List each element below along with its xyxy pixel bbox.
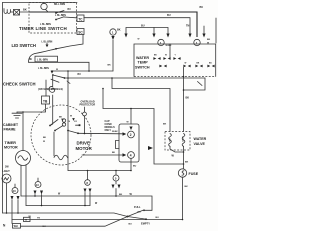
- svg-text:BK: BK: [112, 152, 116, 154]
- motor top labels: [59, 116, 78, 124]
- connector 2b pins: [188, 34, 205, 38]
- node: [130, 170, 132, 172]
- timer line switch contacts: [55, 11, 76, 21]
- svg-text:TC: TC: [78, 17, 83, 21]
- tick: [198, 82, 203, 86]
- node: [183, 76, 185, 78]
- motor winding coils: [62, 119, 65, 122]
- svg-text:BK: BK: [185, 162, 189, 164]
- svg-text:BU: BU: [138, 212, 142, 214]
- svg-text:FUSE: FUSE: [189, 172, 199, 176]
- node: [17, 212, 19, 214]
- wire BU upper branch: [126, 28, 168, 34]
- svg-text:TN: TN: [37, 217, 40, 219]
- wire motor to connector 2: [78, 132, 123, 135]
- ground cabinet frame: [12, 112, 22, 118]
- wire cap branch: [103, 89, 184, 165]
- wire motor to connector 4: [82, 154, 123, 156]
- svg-text:CHECK SWITCH: CHECK SWITCH: [3, 81, 36, 86]
- main winding: [54, 155, 68, 160]
- wire motor start branch: [67, 71, 69, 171]
- wire check switch common bus: [65, 77, 206, 79]
- svg-text:COLD: COLD: [183, 136, 185, 142]
- wire temp switch to valve right: [183, 67, 185, 131]
- valve solenoid cold: [182, 134, 185, 147]
- lid switch S1: [35, 43, 57, 54]
- svg-text:WATER: WATER: [194, 137, 207, 141]
- svg-text:TIMER LINE SWITCH: TIMER LINE SWITCH: [19, 26, 67, 31]
- valve solenoid hot: [169, 134, 172, 147]
- terminal TC: [77, 15, 84, 22]
- wire motor bottom bus: [68, 170, 131, 172]
- svg-text:MOTOR: MOTOR: [76, 146, 93, 151]
- wire check left leg with relay coil: [49, 75, 55, 124]
- timer line switch enclosure (dashed): [29, 3, 77, 34]
- svg-text:L BL-BRN: L BL-BRN: [42, 41, 53, 43]
- label box L BL-BRN: [35, 56, 58, 62]
- node: [22, 111, 24, 113]
- svg-text:BU: BU: [78, 74, 82, 76]
- pin triangle top: [129, 127, 132, 131]
- temp switch terminal pair r2c: [195, 65, 202, 68]
- svg-text:PROTECTOR: PROTECTOR: [80, 104, 96, 107]
- motor switch contact: [67, 130, 79, 135]
- wire TB to ground: [17, 104, 46, 112]
- terminal SC: [77, 29, 84, 35]
- node: [102, 88, 104, 90]
- fuse F1: [178, 169, 186, 177]
- wire to valve left: [112, 78, 170, 132]
- bus bottom 1: [21, 196, 152, 210]
- wire TB branch: [45, 80, 47, 96]
- neutral box: [13, 224, 21, 229]
- node: [111, 77, 113, 79]
- connector 10: [11, 184, 20, 224]
- svg-text:BK: BK: [43, 137, 47, 139]
- power cord plug P1: [4, 9, 14, 14]
- svg-text:BK: BK: [108, 64, 112, 66]
- svg-text:LIGHT: LIGHT: [3, 170, 11, 173]
- svg-text:2: 2: [130, 133, 132, 137]
- svg-text:TEMP: TEMP: [138, 61, 149, 65]
- connector 1b pins: [152, 34, 169, 38]
- wire BK plug to line bus: [20, 11, 30, 13]
- node: [183, 163, 185, 165]
- wire fuse to bottom: [182, 177, 184, 219]
- wire stub: [153, 28, 155, 34]
- svg-text:BU: BU: [68, 9, 72, 11]
- svg-text:FULL: FULL: [134, 205, 141, 209]
- connector 2: [128, 131, 135, 138]
- svg-text:BU: BU: [129, 223, 133, 225]
- tick: [67, 81, 70, 84]
- light L1: [2, 174, 11, 183]
- wire light leads: [1, 178, 4, 180]
- temp switch terminal pair r1b: [163, 57, 170, 60]
- node: [115, 195, 117, 197]
- wire stub: [203, 26, 205, 34]
- wire valve to fuse: [183, 152, 185, 169]
- temp switch terminal pair r2a: [159, 65, 166, 68]
- svg-text:W-BK: W-BK: [112, 131, 118, 133]
- connector 5: [112, 171, 121, 197]
- pin triangle: [111, 36, 114, 40]
- svg-text:BK: BK: [186, 97, 190, 100]
- node: [51, 70, 53, 72]
- jumper loop: [116, 141, 120, 149]
- check switch S2: [38, 68, 65, 82]
- drive motor enclosure (dashed circle): [31, 105, 91, 165]
- wire timer motor leads: [20, 165, 22, 196]
- svg-text:EMPTY: EMPTY: [141, 221, 150, 225]
- svg-text:(ON SOME MODELS): (ON SOME MODELS): [38, 88, 63, 91]
- svg-text:W: W: [165, 55, 167, 57]
- node: [6, 212, 8, 214]
- wire L1 line bus top: [29, 12, 197, 37]
- connector 1b circle: [158, 39, 164, 45]
- wire timer motor top: [22, 112, 24, 151]
- svg-text:BK: BK: [185, 186, 189, 188]
- node: [41, 205, 43, 207]
- wire TC bus: [84, 18, 190, 34]
- node: [182, 219, 184, 221]
- svg-text:WATER: WATER: [136, 56, 149, 60]
- wire right edge: [215, 18, 217, 43]
- svg-text:SWITCH: SWITCH: [135, 65, 150, 69]
- svg-text:BU: BU: [167, 14, 171, 17]
- pin triangles left: [123, 132, 127, 135]
- svg-text:L BL-BRN: L BL-BRN: [38, 68, 49, 70]
- svg-text:BU: BU: [133, 166, 137, 168]
- svg-text:BU: BU: [29, 59, 33, 61]
- svg-text:WH: WH: [14, 225, 18, 228]
- svg-text:W: W: [185, 62, 187, 64]
- svg-text:L BL-BRN: L BL-BRN: [37, 60, 48, 62]
- wire into switch: [169, 44, 171, 57]
- svg-text:BK: BK: [23, 8, 27, 12]
- wire BU row to TD connector: [52, 70, 113, 72]
- noise filter box: [14, 10, 20, 16]
- water level switch: [127, 209, 153, 220]
- node: [84, 205, 86, 207]
- svg-text:L BL-BRN: L BL-BRN: [55, 15, 66, 17]
- svg-text:ONLY: ONLY: [105, 129, 112, 132]
- timer cam M: [41, 3, 48, 12]
- svg-text:LID SWITCH: LID SWITCH: [12, 43, 36, 48]
- water temp switch box: [134, 44, 216, 77]
- svg-text:W: W: [43, 141, 45, 143]
- wire SC to lid switch: [56, 35, 83, 49]
- svg-text:BK: BK: [163, 124, 167, 126]
- svg-text:BK: BK: [207, 39, 211, 41]
- svg-text:W: W: [56, 69, 58, 71]
- node: [34, 195, 36, 197]
- node: [183, 89, 185, 91]
- harness connector block: [119, 124, 139, 162]
- water temp switch box bottom (dashed): [134, 76, 216, 78]
- svg-text:W: W: [138, 39, 140, 41]
- border frame top: [3, 2, 78, 4]
- svg-text:4: 4: [130, 153, 132, 157]
- overload protector OL: [83, 107, 87, 134]
- svg-text:BK-L BRN: BK-L BRN: [54, 4, 65, 6]
- arrow: [148, 146, 153, 150]
- temp switch terminal pair r1a: [153, 57, 160, 60]
- svg-text:BU: BU: [200, 6, 204, 9]
- temp switch terminal pair r1c: [173, 57, 180, 60]
- temp switch terminal pair r2d: [207, 65, 214, 68]
- wire branch to connector 2: [130, 109, 132, 125]
- wire neutral: [21, 217, 128, 227]
- svg-text:BK: BK: [117, 28, 121, 31]
- wire connector 4 down: [130, 158, 132, 170]
- svg-text:VALVE: VALVE: [194, 142, 206, 146]
- motor internal contacts: [49, 120, 63, 157]
- pin triangle: [124, 34, 127, 38]
- node: [87, 170, 89, 172]
- node: [183, 151, 185, 153]
- svg-text:BU: BU: [141, 24, 145, 27]
- svg-text:CABINET: CABINET: [3, 123, 19, 127]
- svg-text:BU: BU: [156, 217, 160, 219]
- wire check bus jog: [184, 78, 206, 90]
- connector 13: [34, 178, 44, 206]
- svg-text:W: W: [70, 116, 72, 118]
- border frame left: [2, 3, 4, 214]
- pin square: [76, 124, 81, 126]
- node: [130, 108, 132, 110]
- svg-text:W-BK: W-BK: [166, 45, 172, 47]
- connector 8: [84, 171, 92, 206]
- wire lid switch left leg: [29, 54, 36, 63]
- node: [115, 170, 117, 172]
- wire lid row to drive area: [29, 62, 90, 71]
- svg-text:TIMER: TIMER: [5, 141, 17, 145]
- bus bottom 3: [3, 213, 128, 217]
- water valve box (dashed): [165, 132, 190, 151]
- svg-text:DRIVE: DRIVE: [77, 141, 90, 146]
- svg-text:MOTOR: MOTOR: [4, 146, 18, 150]
- node: [67, 77, 69, 79]
- wire valve common: [170, 146, 184, 152]
- timer motor TM: [16, 151, 31, 166]
- splice box: [24, 217, 31, 221]
- svg-text:BK: BK: [59, 117, 63, 119]
- connector 1a circle: [110, 29, 116, 35]
- svg-text:SC: SC: [78, 31, 83, 35]
- svg-text:FRAME: FRAME: [4, 128, 17, 132]
- wire connector 1a down: [112, 40, 114, 71]
- svg-text:TB: TB: [43, 99, 48, 103]
- connector 2b circle: [194, 39, 200, 45]
- connector 4: [128, 152, 135, 159]
- temp switch terminal pair r2b: [183, 65, 190, 68]
- bus bottom 2: [26, 205, 90, 207]
- terminal block TB: [42, 96, 50, 104]
- svg-text:TN: TN: [186, 25, 190, 28]
- node: [67, 70, 69, 72]
- node: [88, 70, 90, 72]
- bus bottom 4: [12, 219, 183, 221]
